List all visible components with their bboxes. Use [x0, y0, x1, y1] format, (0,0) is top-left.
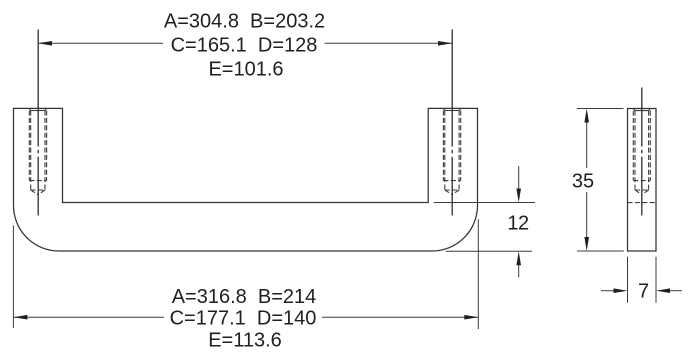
svg-text:E=113.6: E=113.6	[208, 329, 282, 351]
svg-text:A=316.8 B=214: A=316.8 B=214	[172, 286, 317, 308]
svg-text:35: 35	[572, 170, 594, 192]
svg-text:A=304.8 B=203.2: A=304.8 B=203.2	[164, 10, 325, 32]
svg-text:C=165.1 D=128: C=165.1 D=128	[171, 35, 318, 57]
svg-text:12: 12	[507, 212, 529, 234]
svg-text:C=177.1 D=140: C=177.1 D=140	[170, 307, 317, 329]
svg-text:7: 7	[638, 280, 649, 302]
svg-text:E=101.6: E=101.6	[208, 59, 283, 81]
